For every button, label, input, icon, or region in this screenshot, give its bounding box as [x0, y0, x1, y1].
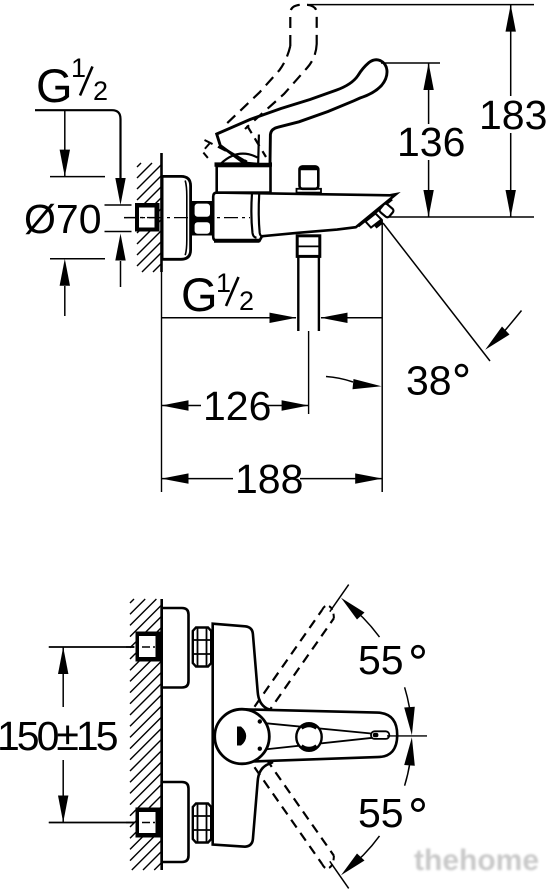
lever top ridge line	[255, 722, 373, 733]
raised handle (dashed) loop	[290, 5, 316, 46]
svg-text:1: 1	[216, 268, 231, 298]
svg-text:136: 136	[397, 119, 465, 165]
raised handle (dashed) right edge	[245, 44, 317, 129]
hose connection pipe walls	[297, 256, 299, 331]
55 deg extension line upper	[330, 585, 349, 612]
hose centerline extension	[308, 331, 310, 414]
solid lever handle (front view)	[246, 709, 397, 761]
wall face line (front view)	[160, 599, 163, 870]
spout tip vertical extension line	[381, 220, 383, 492]
svg-text:1: 1	[71, 53, 86, 83]
lever end slot	[371, 731, 389, 739]
svg-text:2: 2	[239, 286, 254, 316]
38 deg curved arrow right	[505, 311, 522, 332]
55 deg upper arc segment 2	[405, 687, 412, 728]
svg-text:G: G	[181, 268, 218, 321]
pivot dome arc	[221, 154, 258, 164]
dimension line 136	[428, 63, 430, 124]
svg-text:55: 55	[358, 790, 404, 836]
38 deg reference diagonal	[383, 223, 490, 361]
dimension O70 flange	[64, 110, 66, 150]
wall face line (side view)	[160, 153, 163, 272]
body bottom thick edge	[214, 239, 260, 243]
wall hatching (front view)	[130, 599, 162, 870]
svg-text:Ø70: Ø70	[24, 196, 102, 242]
55 deg lower arc segment 1	[345, 836, 380, 871]
upper escutcheon	[162, 608, 189, 688]
38 deg curved arrow left	[326, 377, 353, 383]
svg-text:126: 126	[203, 383, 271, 429]
swung lever dashed upper edge 2	[266, 618, 334, 715]
supply pipe stub in wall	[135, 203, 160, 232]
G 1/2 leader underline	[35, 110, 121, 180]
shower hose outlet housing	[297, 236, 320, 257]
flange inner edge line	[185, 181, 187, 256]
svg-text:55: 55	[358, 637, 404, 683]
swung lever dashed upper end cap	[322, 606, 334, 619]
dimension 126	[162, 405, 202, 407]
pipe centerline (dash-dot)	[124, 217, 250, 219]
wall hatching (side view)	[137, 163, 162, 272]
grip inner line	[220, 146, 247, 162]
faucet body cone (front view)	[213, 624, 272, 847]
faucet body (side view)	[213, 193, 396, 241]
svg-text:2: 2	[93, 76, 108, 106]
dashed grip in raised position	[247, 126, 266, 158]
svg-text:G: G	[36, 59, 73, 112]
svg-text:188: 188	[235, 456, 303, 502]
svg-text:150±15: 150±15	[0, 713, 118, 759]
spout collar joint	[251, 193, 256, 237]
svg-text:183: 183	[479, 92, 546, 138]
handle axis centerline	[387, 735, 427, 737]
upper supply pipe stub	[136, 632, 161, 662]
lower supply pipe stub	[136, 808, 161, 838]
diverter knob (front view oval)	[296, 723, 321, 751]
handle pivot circle	[215, 709, 270, 764]
upper S-union nut	[193, 628, 211, 667]
swung lever dashed upper edge 1	[255, 610, 323, 707]
G 1/2 hose dimension line with outside arrows	[162, 317, 297, 319]
svg-text:38: 38	[406, 358, 452, 404]
aerator on spout tip	[379, 203, 395, 219]
diverter knob	[300, 166, 319, 188]
55 deg extension line lower	[330, 861, 349, 888]
dimension: 183 top extension line	[307, 4, 534, 6]
dimension line 183	[510, 5, 512, 96]
lower S-union nut	[193, 804, 211, 843]
faucet axis centerline over flange and body	[124, 217, 250, 219]
55 deg lower arc segment 2	[405, 745, 412, 786]
raised handle (dashed) left edge	[223, 46, 290, 127]
solid lever handle with grip and neck	[217, 60, 387, 164]
lever end slot dark detail	[373, 733, 379, 737]
dimension 150 +/- 15	[49, 646, 135, 648]
lever neck left edge	[257, 135, 260, 164]
S-union nut	[192, 201, 213, 236]
svg-text:thehome: thehome	[414, 844, 539, 877]
dimension 188	[162, 478, 234, 480]
dimension: 136 top extension line (handle top)	[381, 62, 440, 64]
pivot circle indicator blob	[237, 727, 246, 746]
cartridge housing thick top edge	[215, 162, 273, 166]
diverter knob thick top	[300, 166, 318, 170]
lever bottom ridge line	[255, 738, 373, 751]
lower escutcheon	[162, 782, 189, 862]
wall face extension line down to 188 dimension	[161, 272, 163, 492]
swung lever dashed lower edge 1	[255, 767, 323, 864]
lower pipe centerline	[49, 822, 134, 824]
upper pipe centerline	[49, 646, 134, 648]
wall flange escutcheon (side view)	[162, 176, 191, 259]
pivot screw dots	[258, 719, 262, 723]
swung lever dashed lower end cap	[322, 856, 334, 869]
G 1/2 dimension arrows at pipe stub	[115, 178, 125, 205]
cartridge housing	[217, 166, 271, 193]
swung lever dashed lower edge 2	[266, 759, 334, 856]
dimension: bottom extension line at spout outlet	[386, 216, 534, 218]
spout outlet chamfer line	[359, 200, 393, 227]
55 deg upper arc segment 1	[345, 602, 380, 637]
hose outlet inner line	[297, 245, 320, 247]
diverter knob base	[297, 189, 322, 193]
diverter oval thick top and bottom arcs	[302, 726, 317, 729]
